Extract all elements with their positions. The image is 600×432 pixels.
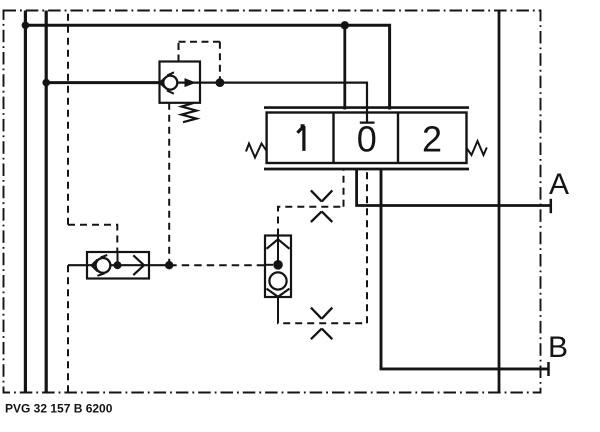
svg-text:B: B (548, 331, 568, 364)
svg-text:2: 2 (422, 119, 442, 160)
svg-text:0: 0 (357, 119, 377, 160)
svg-text:PVG 32 157 B 6200: PVG 32 157 B 6200 (5, 402, 113, 416)
svg-text:A: A (549, 168, 569, 201)
